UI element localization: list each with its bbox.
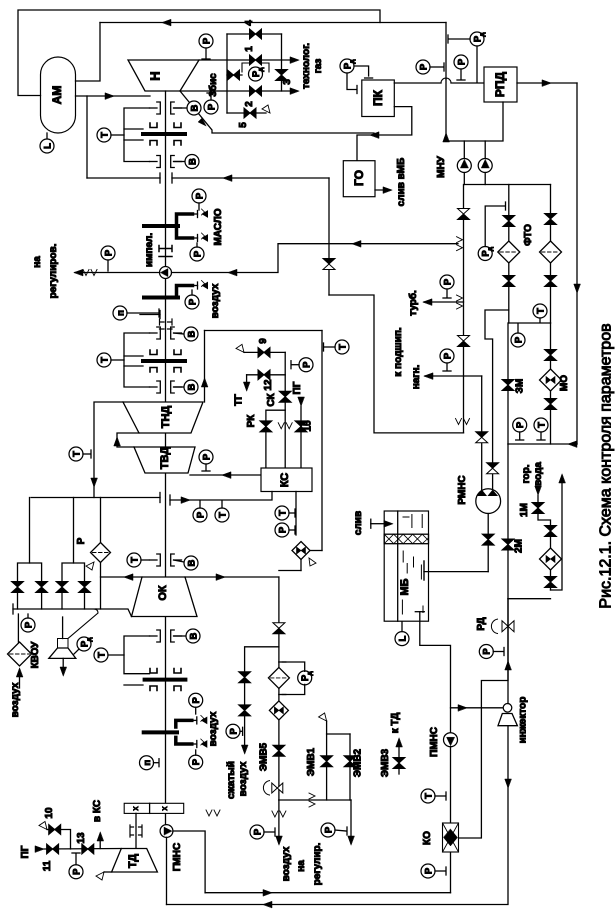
wire fuel header y=330.5 [205, 330, 323, 332]
coupling row y560 [157, 554, 161, 566]
turbine TVD trapezoid [134, 447, 195, 473]
svg-text:В: В [189, 104, 200, 111]
wire turb bearing tap y=302 [424, 301, 464, 303]
arrow bleed right [216, 574, 225, 581]
gauge T zone2 [97, 353, 111, 367]
chevrons at 463/298 [457, 295, 463, 301]
svg-text:МБ: МБ [399, 578, 411, 595]
svg-text:Р: Р [195, 511, 206, 518]
check valve KO [443, 823, 459, 852]
blowoff valve 2 [36, 582, 48, 588]
wire valve 12 stub [247, 374, 286, 376]
tank level marks [402, 515, 423, 615]
svg-text:ГМНС: ГМНС [172, 843, 183, 871]
moisture diamond EMV [269, 701, 288, 720]
svg-text:Р: Р [301, 361, 312, 368]
valve FTO2 upper [545, 214, 557, 220]
chevrons beside SK line [278, 423, 284, 429]
valve oil supply x329 [323, 259, 335, 265]
svg-text:слив: слив [353, 511, 364, 535]
svg-text:нагн.: нагн. [411, 364, 422, 389]
flag fuel filter [309, 558, 316, 566]
svg-text:Р: Р [187, 298, 198, 305]
svg-text:Р: Р [513, 336, 524, 343]
tank inner wall [397, 511, 399, 621]
wire KS drain x296 [295, 492, 297, 536]
wire RPD to right edge line [517, 82, 577, 84]
svg-text:9: 9 [258, 338, 269, 344]
svg-text:воздух: воздух [208, 711, 219, 746]
svg-text:5: 5 [238, 122, 249, 128]
svg-text:КО: КО [422, 831, 433, 845]
wire fuel riser x=285.2 [284, 352, 286, 468]
svg-text:турб.: турб. [407, 290, 419, 316]
wire ZM line [507, 323, 509, 444]
svg-text:В: В [186, 383, 197, 390]
arrow below horn [62, 658, 64, 674]
wire gas return header y=22.5 [100, 22, 446, 24]
svg-text:Р: Р [191, 758, 202, 765]
arrow k TD [396, 738, 403, 747]
air filter KVOU [8, 642, 32, 666]
wire GO drain [375, 189, 390, 191]
gauge P on turb tap [440, 275, 454, 289]
valve EMV1 [326, 734, 328, 800]
wire water return riser [551, 476, 563, 590]
arrow sliv v MB [383, 187, 392, 194]
filter R diamond [91, 543, 111, 563]
svg-text:Т: Т [99, 357, 110, 363]
wire oil to N bearings y=178 [172, 177, 329, 179]
wire fuel pipe x=322 down [321, 331, 323, 551]
gauge P above discharge header [199, 34, 213, 48]
wire RMNS suction [487, 514, 489, 572]
svg-text:в КС: в КС [92, 800, 103, 822]
box RPD [484, 67, 517, 102]
gauge P zone3 upper [189, 693, 203, 707]
svg-text:Р: Р [228, 727, 239, 734]
svg-text:2М: 2М [514, 539, 525, 553]
valve RD with actuator [491, 619, 497, 633]
wire air outlet 1 [278, 800, 280, 843]
svg-text:газ: газ [313, 59, 324, 74]
valve EMV2 [349, 734, 351, 800]
svg-text:Рис.12.1. Схема контроля пара: Рис.12.1. Схема контроля параметров [598, 323, 615, 608]
wire bearing line left of shaft y=178 [87, 177, 160, 179]
arrow TG down [243, 382, 250, 391]
svg-text:ТВД: ТВД [159, 447, 171, 470]
gauge T above manifold [533, 304, 547, 318]
svg-text:Р: Р [252, 828, 263, 835]
arrow bleed left [124, 574, 133, 581]
svg-text:ТГ: ТГ [234, 394, 245, 406]
arrow up on riser [201, 378, 208, 387]
svg-text:В: В [186, 330, 197, 337]
wire bottom rail 1 [205, 892, 450, 894]
arrow on drain diagonal [198, 118, 206, 126]
compressor OK trapezoid [132, 577, 198, 617]
svg-text:2: 2 [244, 101, 255, 107]
gauge T KS drain [275, 506, 289, 520]
gauge L tank [395, 632, 409, 646]
svg-text:МНУ: МНУ [436, 155, 447, 178]
svg-text:на: на [32, 256, 43, 268]
valve FTO1 lower [503, 276, 515, 282]
chevrons on x463 [457, 237, 463, 243]
flag over EMV1 [319, 713, 327, 721]
valve 12 [258, 370, 264, 380]
valve on x463 upper [458, 209, 470, 215]
wire ZM line down to 2M [507, 444, 509, 599]
svg-text:Р: Р [442, 352, 453, 359]
gauge P masl lower [190, 247, 204, 261]
gauge P szh branch [226, 724, 240, 738]
wire TND exhaust duct [117, 433, 139, 447]
gauge T on fuel pipe [335, 340, 349, 354]
svg-text:В: В [188, 632, 199, 639]
valve on x463 mid [458, 336, 470, 342]
svg-text:Р: Р [71, 868, 82, 875]
gauge T zone1 [97, 128, 111, 142]
valve MO upper [545, 350, 557, 356]
box GO [343, 161, 375, 197]
gauge P KVOU [21, 618, 35, 632]
svg-text:ОК: ОК [157, 585, 169, 601]
svg-text:Р: Р [23, 621, 34, 628]
wire PK to RPD header y=83 [394, 82, 441, 84]
wire vent line y=113 [227, 112, 266, 114]
svg-text:РПД: РПД [493, 71, 507, 97]
heater diamond water [540, 548, 562, 570]
svg-text:технолог.: технолог. [301, 43, 312, 89]
svg-text:Т: Т [71, 451, 82, 457]
wire FTO branch 2 [550, 185, 552, 324]
turbine TD trapezoid [112, 849, 158, 873]
svg-text:15: 15 [303, 420, 314, 432]
flag and valve 9 stub [236, 344, 244, 352]
filter diamond EMV [268, 667, 289, 688]
wire cross stub y=75 [227, 74, 242, 76]
svg-text:ЭМВ3: ЭМВ3 [380, 748, 391, 777]
gauge P air1 [250, 825, 264, 839]
wire nagn bearing line y=376 [425, 375, 482, 377]
arrow hot gas [222, 472, 231, 479]
arrow on y243 [352, 240, 361, 247]
svg-text:Т: Т [337, 344, 348, 350]
gauge B at coupling 1 [174, 107, 188, 109]
wire x=446 down to MNU [445, 79, 447, 141]
turbine TND trapezoid [123, 402, 203, 433]
svg-text:на: на [296, 860, 307, 872]
arrow down x94 [91, 478, 98, 487]
svg-text:СК: СК [266, 392, 277, 406]
valve 2 [250, 86, 256, 96]
arrow oil to bearings [223, 175, 232, 182]
gauge B y636 [174, 635, 187, 637]
wire blowoff drop x=29.5 [29, 498, 31, 564]
gauge Pd top right [470, 32, 484, 46]
oil seal bar upper [144, 224, 178, 228]
arrow sliv into tank [370, 519, 372, 528]
arrow air out 2 [348, 836, 355, 845]
svg-text:д: д [307, 671, 314, 675]
intake horn [58, 639, 69, 649]
svg-text:Р: Р [482, 648, 493, 655]
svg-text:Р: Р [418, 63, 429, 70]
wire top bypass y=34 [227, 33, 282, 35]
gearbox box [124, 803, 184, 813]
svg-text:ТД: ТД [127, 854, 139, 868]
pump MNU 2 [484, 141, 486, 159]
svg-text:1М: 1М [519, 503, 530, 517]
gear coupling bar zone3 [145, 678, 186, 682]
svg-text:ГО: ГО [352, 170, 366, 186]
box KS [261, 468, 312, 492]
gauge P air2 [321, 823, 335, 837]
svg-text:х: х [131, 807, 140, 811]
svg-text:вода: вода [533, 462, 544, 486]
impeller symbol [159, 246, 172, 257]
svg-text:КС: КС [279, 473, 291, 488]
valve MO lower [545, 399, 557, 405]
arrow up to RD [505, 661, 512, 670]
svg-text:воздух: воздух [238, 761, 249, 796]
arrow up on x446 [443, 133, 450, 142]
flag TD [104, 871, 112, 873]
wire PMNS down [450, 747, 452, 893]
svg-text:Р: Р [206, 103, 217, 110]
wire air line x=278.9 down [278, 577, 280, 800]
membrane coupling frame zone2 [124, 333, 150, 387]
svg-text:ПГ: ПГ [292, 381, 303, 394]
gauge P bottom [513, 418, 527, 432]
arrow on y500 right [181, 497, 190, 504]
seal tap masl lower [193, 237, 198, 239]
wire right main drop x=577 [576, 83, 578, 444]
valve RMNS B [487, 463, 499, 469]
svg-text:МО: МО [559, 375, 570, 391]
wire TND top left extension [94, 402, 123, 498]
svg-text:4: 4 [244, 20, 255, 26]
wire AM outlet toward N [76, 95, 151, 97]
wire oil riser x=329 [328, 178, 330, 295]
svg-text:гор.: гор. [521, 464, 532, 483]
svg-text:Т: Т [217, 512, 228, 518]
gear coupling bar zone2 [143, 359, 185, 363]
seal tap vozdukh [193, 285, 198, 287]
gauge P zone3 lower [189, 755, 203, 769]
svg-text:РД: РД [476, 617, 487, 630]
gauge n lower [140, 756, 154, 770]
wire fuel filter to pipe [310, 550, 322, 552]
valve 10 [49, 825, 55, 835]
svg-text:д: д [487, 247, 494, 251]
valve 3bis [228, 70, 234, 80]
wire TG outlet [246, 375, 248, 388]
coupling row y157 [157, 156, 161, 168]
svg-text:сжатый: сжатый [226, 761, 237, 799]
wire PG line x=301 [300, 406, 302, 468]
valve SK [279, 391, 291, 397]
svg-text:ПГ: ПГ [20, 845, 31, 858]
valve RMNS suction [482, 534, 494, 540]
svg-text:Р: Р [191, 696, 202, 703]
svg-text:ПМНС: ПМНС [429, 727, 440, 757]
wire AM riser right [76, 23, 101, 82]
svg-text:ЗМ: ЗМ [515, 379, 526, 394]
svg-text:В: В [186, 559, 197, 566]
valve water lower [545, 577, 557, 583]
wire blowoff drop x=73.5 [73, 498, 75, 564]
wire horn diagonal [68, 609, 98, 639]
gauge P on regul line [101, 246, 115, 260]
svg-text:В: В [187, 158, 198, 165]
pump GMNS [160, 825, 173, 838]
arrow water return [559, 474, 566, 483]
membrane coupling frame zone1 [124, 108, 150, 162]
svg-text:РМНС: РМНС [457, 475, 468, 504]
wire TD shaft [135, 813, 137, 848]
tank MB [384, 511, 428, 621]
svg-text:Т: Т [99, 132, 110, 138]
valve 4 [250, 29, 256, 39]
wire horn shaft [62, 617, 64, 639]
gauge P fuel [299, 358, 313, 372]
oil seal bar zone3 [144, 730, 177, 734]
arrow v KS [97, 832, 104, 841]
gauge Pd horn [77, 637, 91, 651]
valve EMV3 [398, 740, 400, 774]
svg-text:воздух: воздух [210, 283, 221, 318]
valve ZM [502, 380, 514, 386]
valve on x279 [273, 623, 285, 629]
arrow AM outlet [105, 93, 114, 100]
valve RK [260, 421, 272, 427]
wire PMNS branch to injector [451, 707, 504, 709]
flag valve10 [39, 822, 47, 830]
gauge B y387 [174, 386, 185, 388]
wire v KS riser [99, 834, 101, 849]
pump RMNS [476, 489, 501, 514]
wire N discharge header y=60 [199, 59, 296, 61]
gauge P under manifold [511, 333, 525, 347]
seal bracket masl upper [177, 214, 193, 224]
box PK [362, 80, 395, 117]
svg-text:ТНД: ТНД [160, 406, 172, 429]
wire 1M branch [538, 495, 551, 590]
wire suction from tank [424, 571, 488, 573]
blowoff pair 1 header [18, 563, 42, 582]
valve szh2 [239, 705, 251, 711]
svg-text:10: 10 [44, 807, 55, 819]
svg-text:Р: Р [192, 250, 203, 257]
valve 1 [250, 55, 256, 65]
filter FTO1 diamond [498, 241, 520, 263]
vessel AM [41, 57, 76, 133]
svg-text:п: п [142, 760, 153, 766]
svg-text:Р: Р [201, 453, 212, 460]
svg-text:КВОУ: КВОУ [30, 641, 41, 669]
svg-text:Р: Р [201, 37, 212, 44]
membrane coupling frame zone3 [124, 636, 150, 674]
svg-text:Р: Р [456, 58, 467, 65]
chevrons below manifold [272, 811, 278, 817]
arrow rail2 [263, 901, 272, 908]
arrow on gas return header [162, 19, 171, 26]
gauge B y334 [174, 333, 185, 334]
arrow to injector [458, 705, 467, 712]
svg-text:Т: Т [129, 557, 140, 563]
arrow to tekhnolog gas top [290, 57, 299, 64]
wire bypass right riser x=281.5 [281, 34, 283, 91]
arrow on y272 [228, 269, 237, 276]
wire OK bleed to left y=577 [101, 576, 143, 578]
fuel filter diamond [300, 560, 302, 571]
arrow gor voda in [535, 486, 542, 495]
svg-text:ЭМВ2: ЭМВ2 [353, 748, 364, 777]
wire RMNS line A [481, 376, 483, 490]
arrow rail1 [263, 889, 272, 896]
seal taps zone3 [192, 719, 197, 721]
svg-text:д: д [349, 59, 356, 63]
wire MNU to bearing header x=463.5 [463, 185, 465, 433]
injector [503, 704, 512, 713]
valve FTO1 upper [503, 216, 515, 222]
wire N suction header y=91 [180, 90, 296, 92]
wire impel discharge to regulators [75, 272, 160, 274]
valve water upper [545, 526, 557, 532]
arrow PG down [298, 397, 305, 406]
gauge P on N suction [204, 100, 218, 114]
gauge P y515 left [193, 508, 207, 522]
valve 3 [276, 70, 288, 76]
svg-text:ЭМВ5: ЭМВ5 [259, 742, 270, 771]
valve 15 [295, 421, 307, 427]
arrow into oil system [568, 441, 577, 448]
svg-text:импел.: импел. [144, 233, 155, 267]
wire bottom link y=432.9 [329, 295, 464, 433]
svg-text:Т: Т [423, 793, 434, 799]
gauge Pd to PK [340, 59, 354, 73]
arrow szhaty [241, 745, 248, 754]
gauge T x94 [69, 447, 83, 461]
wire bottom rail 2 [167, 726, 509, 905]
gauge P masl upper [192, 189, 206, 203]
valve EMV5 [273, 745, 285, 751]
gauge Pd EMV [298, 671, 312, 685]
svg-text:ЭМВ1: ЭМВ1 [306, 747, 317, 776]
gauge P vozdukh seal [185, 295, 199, 309]
svg-text:д: д [479, 32, 486, 36]
valve szh1 [239, 672, 251, 678]
svg-text:1: 1 [244, 46, 255, 52]
gauge T zone3 [94, 648, 108, 662]
arrow PG in [35, 846, 44, 853]
svg-text:12: 12 [263, 379, 274, 391]
wire hot gas KS to TVD y=475 [190, 474, 261, 476]
wire AM top-left loop [18, 10, 380, 96]
chevrons on x463 lower [456, 419, 462, 425]
wire y=599 link [508, 598, 551, 600]
filter R line [100, 498, 102, 543]
flag vent of valve 5 [262, 105, 270, 113]
wire GMNS discharge [173, 831, 205, 893]
valve 11 [47, 844, 53, 854]
svg-text:Н: Н [148, 71, 163, 80]
gauge P above oil header [454, 55, 468, 69]
arrow na regulirov [74, 269, 83, 276]
shaft main line [165, 91, 167, 826]
